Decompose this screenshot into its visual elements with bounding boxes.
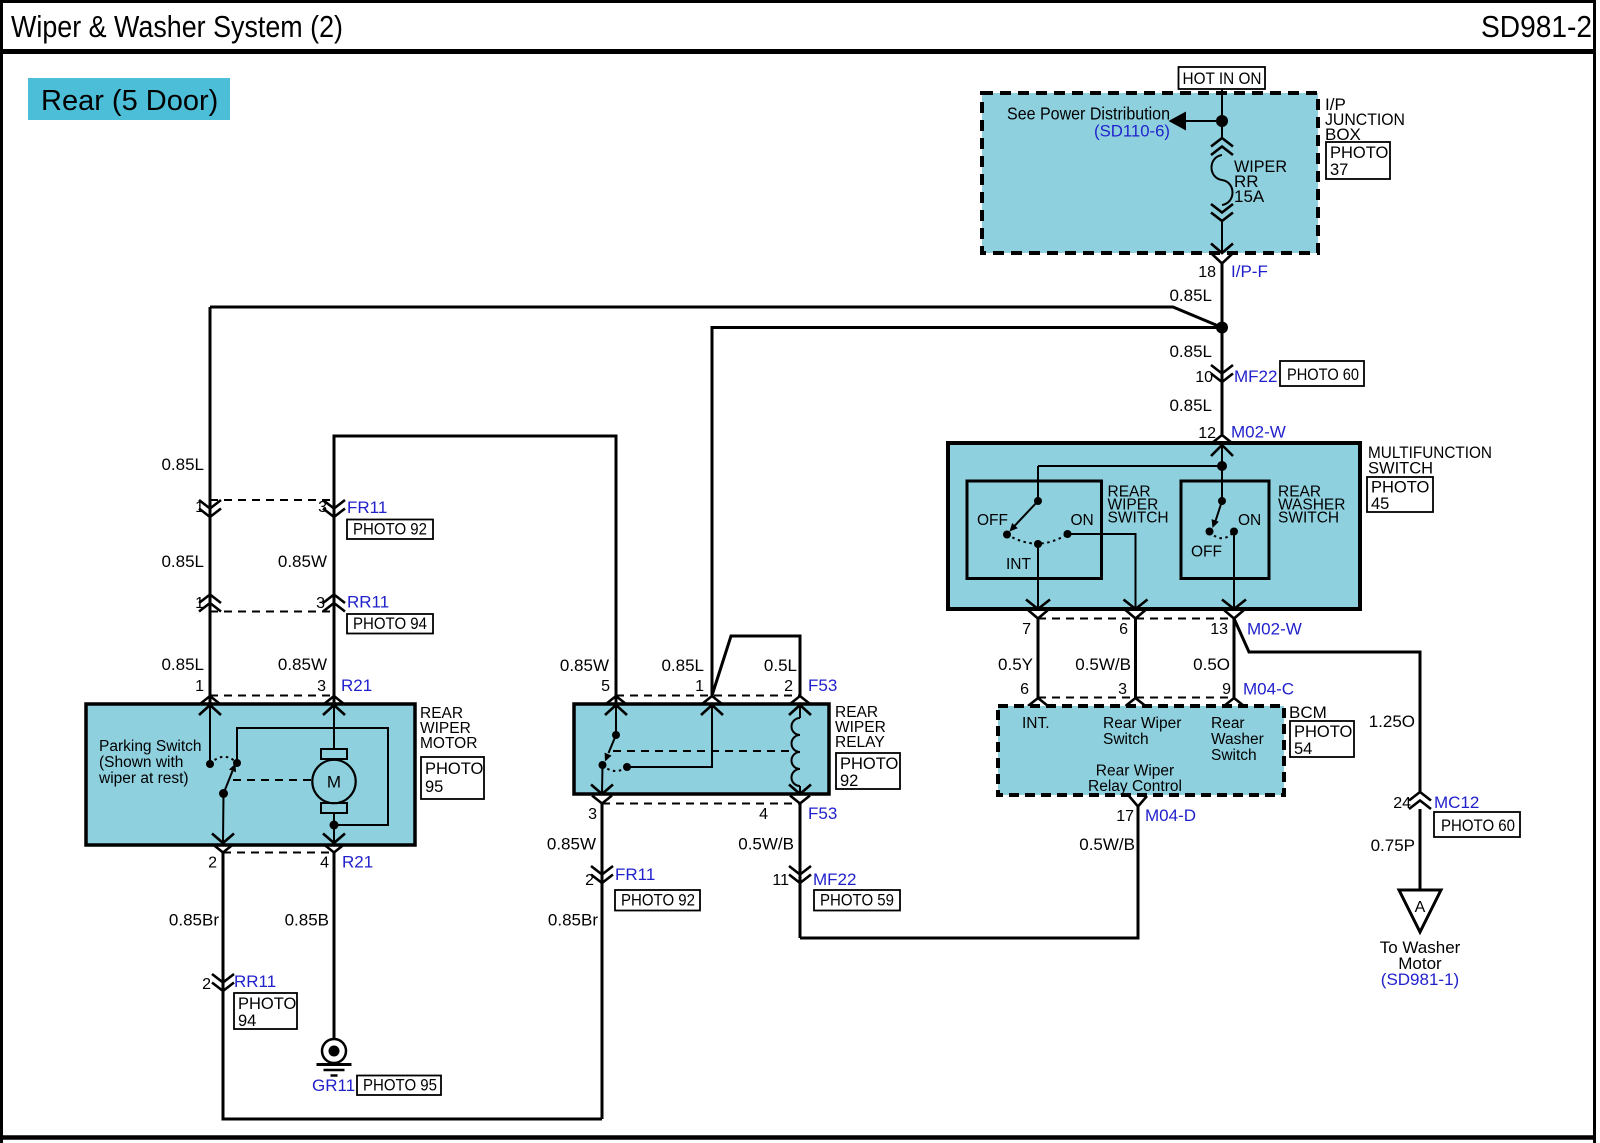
svg-text:0.85L: 0.85L xyxy=(1169,342,1212,361)
svg-text:PHOTO 95: PHOTO 95 xyxy=(363,1077,437,1095)
wire from ON contact to pin 6 xyxy=(1068,534,1136,608)
entry arrows pins 5 1 2 xyxy=(605,705,811,715)
svg-text:95: 95 xyxy=(425,778,443,796)
svg-text:PHOTO 59: PHOTO 59 xyxy=(820,892,894,910)
label PHOTO 95 xyxy=(357,1076,441,1096)
svg-text:M02-W: M02-W xyxy=(1247,620,1302,639)
wire 0.85L to relay pin 1 xyxy=(712,328,1222,696)
wire 0.75P xyxy=(1419,809,1422,890)
wire from parking switch contact to motor loop xyxy=(237,728,388,825)
svg-text:R21: R21 xyxy=(341,676,372,695)
fuse WIPER RR 15A xyxy=(1211,121,1287,253)
svg-text:0.85Br: 0.85Br xyxy=(548,911,598,930)
svg-text:Switch: Switch xyxy=(1103,731,1149,748)
svg-text:M02-W: M02-W xyxy=(1231,423,1286,442)
label PHOTO 54 xyxy=(1290,721,1354,758)
entry arrow pin 12 xyxy=(1211,445,1233,456)
svg-text:RR11: RR11 xyxy=(234,972,276,991)
node A (junction dot) xyxy=(1216,115,1228,127)
svg-text:0.5W/B: 0.5W/B xyxy=(1075,655,1131,674)
svg-text:INT.: INT. xyxy=(1022,715,1050,732)
svg-text:PHOTO: PHOTO xyxy=(425,760,484,778)
svg-text:F53: F53 xyxy=(808,804,837,823)
svg-text:12: 12 xyxy=(1198,425,1216,442)
svg-text:INT: INT xyxy=(1006,556,1032,573)
wire 0.5O xyxy=(1233,619,1236,698)
svg-text:3: 3 xyxy=(317,678,326,695)
connector F53 pins 5 1 2 xyxy=(601,676,837,704)
junction inside switch xyxy=(1217,461,1227,471)
svg-text:F53: F53 xyxy=(808,676,837,695)
svg-text:I/P-F: I/P-F xyxy=(1231,262,1268,281)
label PHOTO 60 xyxy=(1280,361,1364,386)
svg-text:0.5W/B: 0.5W/B xyxy=(738,835,794,854)
section label Rear (5 Door) xyxy=(28,78,230,120)
junction xyxy=(1216,322,1228,334)
svg-text:6: 6 xyxy=(1020,681,1029,698)
svg-text:SWITCH: SWITCH xyxy=(1368,460,1433,478)
wire inside switch xyxy=(1038,445,1222,501)
relay coil xyxy=(792,705,801,794)
svg-text:Washer: Washer xyxy=(1211,731,1264,748)
svg-text:7: 7 xyxy=(1022,621,1031,638)
contact INT xyxy=(1034,540,1042,548)
svg-text:PHOTO 60: PHOTO 60 xyxy=(1441,817,1515,835)
svg-text:0.85L: 0.85L xyxy=(161,655,204,674)
svg-text:SWITCH: SWITCH xyxy=(1108,510,1169,527)
connector RR11 pins 1 3 xyxy=(195,593,389,613)
svg-text:FR11: FR11 xyxy=(615,865,655,884)
ground GR11 xyxy=(312,1039,355,1095)
svg-text:2: 2 xyxy=(208,855,217,872)
washer contact OFF xyxy=(1206,528,1214,536)
node HOT IN ON xyxy=(1179,67,1266,89)
rear washer switch inner box xyxy=(1181,481,1269,579)
svg-text:45: 45 xyxy=(1371,495,1389,513)
label PHOTO 92 xyxy=(615,890,700,911)
svg-text:2: 2 xyxy=(585,872,594,889)
svg-text:0.85W: 0.85W xyxy=(278,552,327,571)
connector I/P-F pin 18 xyxy=(1198,254,1268,281)
wire 0.5Y xyxy=(1037,619,1040,698)
motor assembly REAR WIPER MOTOR xyxy=(86,704,415,845)
connector FR11 pin 2 xyxy=(585,865,655,889)
wire 0.85W down from relay pin 3 xyxy=(601,804,604,1120)
relay assembly REAR WIPER RELAY xyxy=(574,704,829,794)
svg-text:PHOTO 92: PHOTO 92 xyxy=(621,892,695,910)
wire 0.85Br from motor pin 2 xyxy=(223,853,602,1120)
svg-text:Relay Control: Relay Control xyxy=(1088,778,1182,795)
svg-text:2: 2 xyxy=(202,976,211,993)
svg-text:RELAY: RELAY xyxy=(835,734,885,751)
svg-text:0.85W: 0.85W xyxy=(278,655,327,674)
label PHOTO 45 xyxy=(1367,477,1433,513)
pin label Rear Wiper Switch xyxy=(1103,715,1181,748)
svg-text:PHOTO: PHOTO xyxy=(1330,144,1389,162)
label PHOTO 92 xyxy=(347,520,433,540)
svg-text:4: 4 xyxy=(759,806,768,823)
svg-text:2: 2 xyxy=(784,678,793,695)
svg-text:24: 24 xyxy=(1393,795,1411,812)
connector R21 pins 1 3 xyxy=(195,676,372,704)
parking switch xyxy=(206,705,241,843)
entry arrows pins 1 3 xyxy=(199,705,345,715)
travel arc xyxy=(1007,534,1068,544)
svg-text:PHOTO 92: PHOTO 92 xyxy=(353,521,427,539)
wire 0.5W/B down from relay pin 4 xyxy=(799,804,802,939)
wire 0.85B from motor pin 4 xyxy=(333,853,336,1041)
wire 0.85W to relay pin 5 xyxy=(334,436,616,704)
wiper switch lever xyxy=(1014,501,1038,527)
svg-text:4: 4 xyxy=(320,855,329,872)
pin label Rear Washer Switch xyxy=(1211,715,1264,764)
svg-text:3: 3 xyxy=(318,499,327,516)
label PHOTO 94 xyxy=(347,614,433,634)
svg-text:54: 54 xyxy=(1294,740,1312,758)
svg-text:GR11: GR11 xyxy=(312,1076,355,1095)
svg-text:BCM: BCM xyxy=(1289,703,1327,722)
connector R21 pins 2 4 xyxy=(208,845,373,872)
svg-text:FR11: FR11 xyxy=(347,498,387,517)
label PHOTO 59 xyxy=(814,890,900,911)
svg-text:0.5W/B: 0.5W/B xyxy=(1079,835,1135,854)
svg-text:1: 1 xyxy=(195,678,204,695)
wiper switch pivot xyxy=(1034,497,1042,505)
svg-text:MF22: MF22 xyxy=(813,870,856,889)
svg-text:0.85W: 0.85W xyxy=(560,656,609,675)
svg-text:Rear Wiper: Rear Wiper xyxy=(1103,715,1181,732)
svg-text:PHOTO 94: PHOTO 94 xyxy=(353,615,427,633)
label MULTIFUNCTION SWITCH xyxy=(1368,444,1492,478)
svg-text:OFF: OFF xyxy=(977,512,1008,529)
svg-text:OFF: OFF xyxy=(1191,544,1222,561)
contact ON xyxy=(1064,530,1072,538)
connector M04-D pin 17 xyxy=(1116,796,1196,825)
svg-text:Parking Switch: Parking Switch xyxy=(99,738,202,755)
svg-text:3: 3 xyxy=(316,595,325,612)
svg-text:18: 18 xyxy=(1198,264,1216,281)
svg-text:M: M xyxy=(327,773,341,792)
wire 0.85L to left branch xyxy=(210,307,1222,328)
connector RR11 pin 2 xyxy=(202,972,276,993)
label I/P JUNCTION BOX xyxy=(1325,95,1405,144)
svg-text:9: 9 xyxy=(1222,681,1231,698)
connector MF22 pin 10 xyxy=(1195,365,1277,386)
op multifunction switch U1 xyxy=(948,443,1360,609)
label REAR WIPER RELAY xyxy=(835,704,886,751)
svg-text:1.25O: 1.25O xyxy=(1369,712,1415,731)
rear wiper switch inner box xyxy=(967,481,1102,579)
svg-text:0.85L: 0.85L xyxy=(161,552,204,571)
svg-text:PHOTO: PHOTO xyxy=(1371,479,1430,497)
label PHOTO 94 xyxy=(234,993,297,1030)
wire 0.85L left vertical xyxy=(209,307,212,704)
svg-text:5: 5 xyxy=(601,678,610,695)
svg-text:PHOTO: PHOTO xyxy=(1294,723,1353,741)
mechanical link xyxy=(233,779,312,781)
wire from washer ON contact to pin 13 xyxy=(1233,532,1235,609)
svg-text:HOT IN ON: HOT IN ON xyxy=(1183,69,1262,88)
connector M02-W pin 12 xyxy=(1198,423,1286,444)
label Parking Switch xyxy=(98,738,202,787)
wire to power distribution arrow xyxy=(1185,120,1222,122)
svg-text:94: 94 xyxy=(238,1012,256,1030)
svg-text:(SD110-6): (SD110-6) xyxy=(1094,122,1170,141)
svg-text:MC12: MC12 xyxy=(1434,793,1479,812)
svg-text:PHOTO: PHOTO xyxy=(238,995,297,1013)
contact OFF xyxy=(1003,531,1011,539)
connector MC12 pin 24 xyxy=(1393,792,1479,812)
label REAR WASHER SWITCH xyxy=(1278,484,1345,527)
svg-text:1: 1 xyxy=(195,595,204,612)
wire from INT contact to pin 7 xyxy=(1037,544,1039,608)
washer switch lever xyxy=(1216,501,1223,521)
relay switch xyxy=(599,705,713,794)
svg-text:ON: ON xyxy=(1238,512,1261,529)
svg-text:1: 1 xyxy=(695,678,704,695)
BCM U2 xyxy=(998,706,1284,795)
svg-text:15A: 15A xyxy=(1234,187,1265,206)
label REAR WIPER MOTOR xyxy=(420,705,477,752)
connector MF22 pin 11 xyxy=(772,866,856,889)
svg-text:3: 3 xyxy=(1118,681,1127,698)
svg-text:0.5Y: 0.5Y xyxy=(998,655,1033,674)
svg-text:A: A xyxy=(1415,899,1426,916)
washer switch pivot xyxy=(1218,497,1226,505)
svg-text:(SD981-1): (SD981-1) xyxy=(1381,970,1459,989)
connector F53 pins 3 4 xyxy=(588,796,837,824)
svg-text:Switch: Switch xyxy=(1211,747,1257,764)
wire 1.25O to MC12 xyxy=(1234,619,1420,793)
wire 0.85L trunk xyxy=(1221,264,1224,436)
svg-text:(Shown with: (Shown with xyxy=(99,754,183,771)
svg-text:0.85L: 0.85L xyxy=(1169,396,1212,415)
svg-text:92: 92 xyxy=(840,772,858,790)
svg-text:3: 3 xyxy=(588,806,597,823)
svg-text:17: 17 xyxy=(1116,808,1134,825)
svg-text:0.85Br: 0.85Br xyxy=(169,911,219,930)
svg-text:6: 6 xyxy=(1119,621,1128,638)
washer travel arc xyxy=(1210,532,1235,539)
svg-text:0.75P: 0.75P xyxy=(1371,836,1415,855)
svg-text:SD981-2: SD981-2 xyxy=(1481,10,1592,44)
svg-text:MOTOR: MOTOR xyxy=(420,735,477,752)
exit arrows pins 3 4 xyxy=(591,785,811,795)
svg-text:37: 37 xyxy=(1330,161,1348,179)
exit arrows pins 7 6 13 xyxy=(1026,600,1246,610)
svg-text:11: 11 xyxy=(772,872,789,889)
label PHOTO 92 xyxy=(836,753,900,790)
svg-text:Wiper & Washer System (2): Wiper & Washer System (2) xyxy=(11,10,343,44)
svg-text:MF22: MF22 xyxy=(1234,367,1277,386)
wire from HOT IN ON xyxy=(1221,89,1223,121)
svg-text:See Power Distribution: See Power Distribution xyxy=(1007,104,1170,124)
connector FR11 pins 1 3 xyxy=(195,498,387,517)
label PHOTO 95 xyxy=(421,757,484,799)
svg-text:0.5O: 0.5O xyxy=(1193,655,1230,674)
pin label Rear Wiper Relay Control xyxy=(1088,763,1182,796)
svg-text:RR11: RR11 xyxy=(347,593,389,612)
connector M02-W pins 7 6 13 xyxy=(1022,610,1302,639)
svg-text:0.85L: 0.85L xyxy=(161,455,204,474)
svg-text:PHOTO: PHOTO xyxy=(840,755,899,773)
washer contact ON xyxy=(1230,528,1238,536)
svg-text:M04-C: M04-C xyxy=(1243,680,1294,699)
label PHOTO 60 xyxy=(1434,812,1520,837)
svg-text:0.5L: 0.5L xyxy=(764,656,797,675)
svg-text:0.85L: 0.85L xyxy=(1169,286,1212,305)
svg-text:Rear (5 Door): Rear (5 Door) xyxy=(41,85,218,117)
svg-text:wiper at rest): wiper at rest) xyxy=(98,770,189,787)
wire 0.5W/B from BCM xyxy=(800,807,1138,939)
wire 0.5W/B xyxy=(1134,619,1137,698)
svg-text:SWITCH: SWITCH xyxy=(1278,510,1339,527)
svg-text:0.85B: 0.85B xyxy=(285,911,329,930)
svg-text:0.85W: 0.85W xyxy=(547,835,596,854)
svg-text:1: 1 xyxy=(195,499,204,516)
svg-text:R21: R21 xyxy=(342,853,373,872)
header rule xyxy=(0,49,1596,54)
I/P junction box xyxy=(982,93,1318,253)
label REAR WIPER SWITCH xyxy=(1108,484,1169,527)
svg-text:13: 13 xyxy=(1210,621,1228,638)
svg-text:PHOTO 60: PHOTO 60 xyxy=(1287,366,1359,384)
label PHOTO 37 xyxy=(1326,142,1390,179)
svg-text:Rear: Rear xyxy=(1211,715,1245,732)
svg-text:Rear Wiper: Rear Wiper xyxy=(1096,763,1174,780)
exit arrows pins 2 4 xyxy=(212,834,345,844)
connector M04-C pins 6 3 9 xyxy=(1020,680,1294,707)
svg-text:ON: ON xyxy=(1071,512,1094,529)
wire 0.5L branch xyxy=(712,636,800,696)
svg-text:0.85L: 0.85L xyxy=(661,656,704,675)
mechanical link xyxy=(613,750,790,752)
svg-text:10: 10 xyxy=(1195,369,1213,386)
motor M xyxy=(312,705,355,843)
off-page connector A to washer motor xyxy=(1380,890,1461,989)
svg-text:M04-D: M04-D xyxy=(1145,806,1196,825)
